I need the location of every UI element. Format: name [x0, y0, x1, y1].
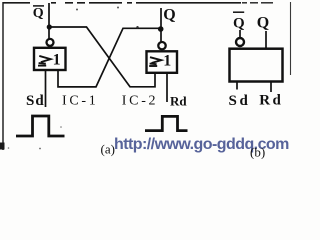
svg-text:1: 1	[53, 52, 61, 69]
svg-text:Sd: Sd	[229, 93, 251, 109]
border frame left	[2, 2, 4, 150]
or-gate IC-1 label >=1	[38, 56, 51, 66]
waveform pulse Rd	[145, 116, 188, 130]
scan noise dots	[117, 7, 119, 9]
svg-text:Q: Q	[233, 16, 245, 32]
junction dot left	[47, 24, 52, 29]
wire Rd input	[166, 72, 168, 102]
wire cross A: Qbar junction to IC-2 input	[49, 27, 155, 87]
inverter bubble (b)	[236, 38, 244, 46]
svg-text:IC-2: IC-2	[122, 94, 158, 109]
inverter bubble IC-1	[47, 39, 54, 46]
border frame top dashes	[3, 2, 242, 4]
waveform pulse Sd	[16, 116, 65, 136]
or-gate IC-2 label >=1	[149, 57, 161, 66]
latch block (b)	[230, 49, 283, 82]
svg-text:Q: Q	[163, 7, 175, 24]
wire Q vertical	[160, 8, 162, 42]
svg-text:Q: Q	[33, 6, 44, 21]
wire Qbar vertical	[48, 3, 50, 39]
border frame left blob	[0, 143, 5, 150]
or-gate IC-1 box	[34, 48, 66, 70]
svg-text:Rd: Rd	[259, 93, 283, 109]
svg-text:Q: Q	[257, 14, 269, 31]
border frame right	[290, 2, 292, 75]
svg-text:(a): (a)	[101, 142, 115, 157]
junction dot right	[158, 26, 164, 32]
wire Rd stub (b)	[270, 81, 272, 92]
wire Q stub (b)	[265, 31, 267, 49]
wire Sd stub (b)	[236, 81, 238, 90]
or-gate IC-2 box	[147, 51, 178, 73]
wire cross B: Q junction to IC-1 input	[58, 28, 161, 87]
svg-text:(b): (b)	[250, 145, 265, 160]
wire Qbar stub (b)	[239, 30, 241, 38]
svg-text:Rd: Rd	[170, 93, 187, 108]
svg-text:IC-1: IC-1	[62, 94, 98, 109]
wire Sd input	[45, 70, 47, 107]
svg-text:1: 1	[163, 53, 171, 70]
svg-text:Sd: Sd	[26, 93, 45, 109]
inverter bubble IC-2	[158, 42, 165, 49]
